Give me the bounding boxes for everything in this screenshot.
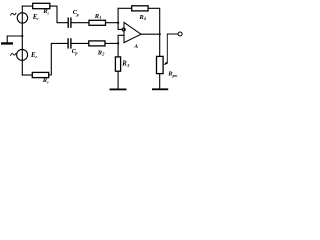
svg-text:A: A — [133, 44, 138, 50]
svg-text:3: 3 — [126, 63, 130, 68]
svg-text:г: г — [37, 16, 39, 21]
svg-text:1: 1 — [99, 15, 101, 20]
svg-text:р: р — [76, 12, 80, 17]
svg-text:2: 2 — [101, 52, 105, 57]
svg-text:г: г — [35, 54, 37, 59]
svg-text:рег: рег — [172, 74, 179, 78]
svg-text:4: 4 — [143, 16, 147, 21]
svg-text:р: р — [74, 50, 78, 55]
svg-text:г: г — [48, 10, 50, 15]
svg-text:г: г — [47, 79, 49, 84]
